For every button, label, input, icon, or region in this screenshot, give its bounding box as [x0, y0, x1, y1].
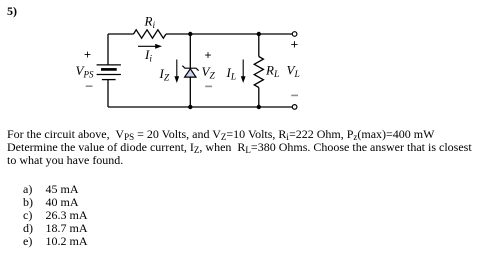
junction node top-right: [257, 32, 261, 36]
svg-text:IL: IL: [226, 65, 237, 83]
wire top-right (Ri to output): [166, 33, 292, 35]
resistor Ri zigzag: [134, 30, 166, 38]
current arrow Ii: [138, 45, 157, 47]
junction node bottom-left: [188, 105, 192, 109]
svg-text:VPS: VPS: [76, 63, 94, 80]
battery VPS plate long top: [97, 64, 121, 66]
zener diode cathode bar with bent ends: [182, 66, 198, 71]
current arrow IL: [242, 60, 244, 78]
minus sign Vz: [205, 86, 212, 88]
battery plate thick short: [101, 68, 117, 71]
svg-text:VL: VL: [287, 63, 300, 81]
wire top-left (source to Ri): [108, 33, 134, 35]
minus sign output: [291, 95, 298, 97]
zener diode triangle: [185, 69, 196, 77]
wire RL branch bottom: [258, 88, 260, 108]
svg-text:RL: RL: [265, 63, 279, 81]
wire RL branch top: [258, 34, 260, 57]
svg-text:+: +: [205, 48, 212, 62]
output terminal bottom: [292, 105, 297, 110]
wire left vertical top: [107, 34, 109, 65]
output terminal top: [292, 32, 297, 37]
wire zener branch bottom: [189, 77, 191, 107]
wire zener branch top: [189, 34, 191, 68]
svg-text:+: +: [291, 37, 299, 52]
circuit schematic: [0, 0, 478, 122]
resistor RL zigzag vertical: [254, 57, 263, 88]
battery plate short bottom: [102, 79, 116, 81]
svg-text:Ii: Ii: [144, 47, 152, 65]
svg-text:+: +: [84, 48, 91, 62]
svg-text:Ri: Ri: [144, 14, 156, 32]
answer choices: [23, 183, 88, 248]
svg-text:IZ: IZ: [159, 66, 170, 84]
junction node top-left: [188, 32, 192, 36]
battery plate long: [97, 74, 121, 76]
problem statement paragraph: [7, 128, 477, 168]
current arrow Iz: [176, 60, 178, 78]
problem number 5): [7, 4, 17, 19]
svg-text:VZ: VZ: [202, 64, 216, 82]
junction node bottom-right: [257, 105, 261, 109]
wire bottom: [108, 106, 292, 108]
minus sign source: [86, 85, 93, 87]
wire left vertical bottom: [107, 80, 109, 107]
